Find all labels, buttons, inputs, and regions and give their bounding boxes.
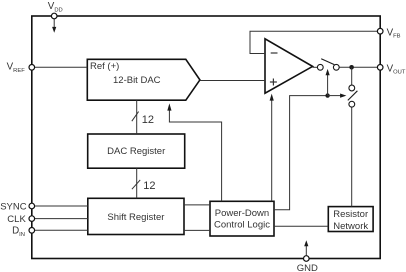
pin VREF [29, 65, 35, 71]
arrow control to switch S2 [328, 94, 347, 98]
wire junction down to switch S2 [351, 67, 353, 85]
svg-text:CLK: CLK [7, 214, 26, 225]
bus DAC Register to Shift Register (12) [136, 168, 138, 198]
Power-Down Control Logic block [210, 201, 274, 236]
node output junction [349, 65, 354, 70]
DAC Register block [88, 134, 185, 168]
wire power-down control from logic to switches [274, 96, 328, 210]
12-bit DAC block U1 [87, 59, 200, 100]
svg-text:VREF: VREF [7, 62, 26, 74]
wire power-down control to DAC [169, 110, 221, 201]
svg-text:Ref (+): Ref (+) [90, 61, 119, 72]
arrow GND into chip [304, 240, 308, 255]
chip boundary [32, 16, 380, 259]
bus slash lower [132, 180, 140, 189]
op-amp A1 [265, 39, 313, 93]
bus DAC to DAC Register (12) [136, 100, 138, 134]
svg-text:12: 12 [143, 180, 155, 192]
pin GND [304, 256, 310, 262]
arrow into op-amp [270, 94, 274, 101]
wire SYNC to Shift Register [34, 205, 87, 207]
svg-text:DIN: DIN [12, 226, 25, 238]
svg-text:SYNC: SYNC [0, 201, 27, 212]
node control junction [325, 93, 329, 97]
wire op-amp output to switch S1 [313, 66, 318, 68]
svg-text:VOUT: VOUT [387, 63, 406, 75]
arrow control to switch S1 [326, 69, 330, 96]
pin VDD [51, 13, 57, 19]
wire feedback from VFB to op-amp minus input [250, 31, 378, 53]
pin SYNC [29, 203, 35, 209]
switch S1 [317, 59, 339, 70]
pin VFB [377, 28, 383, 34]
wire Shift Register to Power-Down logic (sync) [184, 204, 210, 206]
switch S2 [348, 85, 358, 107]
svg-text:Power-Down: Power-Down [215, 208, 269, 219]
op-amp minus input sign [271, 52, 278, 54]
Shift Register block [88, 198, 184, 234]
svg-text:VFB: VFB [387, 27, 401, 39]
wire Shift Register to Power-Down logic (din) [184, 229, 210, 231]
wire DAC output to op-amp plus input [200, 80, 265, 82]
svg-text:12-Bit DAC: 12-Bit DAC [113, 75, 161, 86]
svg-text:Network: Network [333, 221, 368, 232]
wire power-down control to op-amp [271, 100, 273, 201]
pin VOUT [377, 65, 383, 71]
wire switch S1 to VOUT [339, 66, 377, 68]
arrow into DAC [167, 103, 171, 110]
pin CLK [29, 216, 35, 222]
svg-text:GND: GND [297, 263, 318, 272]
svg-text:Control Logic: Control Logic [214, 220, 270, 231]
wire switch S2 to Resistor Network [351, 107, 353, 207]
svg-text:DAC Register: DAC Register [107, 146, 165, 157]
wire DIN to Shift Register [34, 229, 87, 231]
op-amp plus input sign [270, 79, 277, 86]
wire power-down logic to resistor network [274, 225, 328, 227]
svg-text:Shift Register: Shift Register [107, 212, 164, 223]
svg-text:12: 12 [142, 114, 154, 126]
pin DIN [29, 228, 35, 234]
Resistor Network block [328, 207, 373, 232]
svg-text:Resistor: Resistor [333, 209, 368, 220]
wire CLK to Shift Register [34, 218, 87, 220]
svg-text:VDD: VDD [48, 1, 63, 13]
arrow VDD into chip [52, 19, 56, 33]
bus slash upper [132, 112, 139, 122]
wire VREF to DAC [34, 66, 87, 68]
